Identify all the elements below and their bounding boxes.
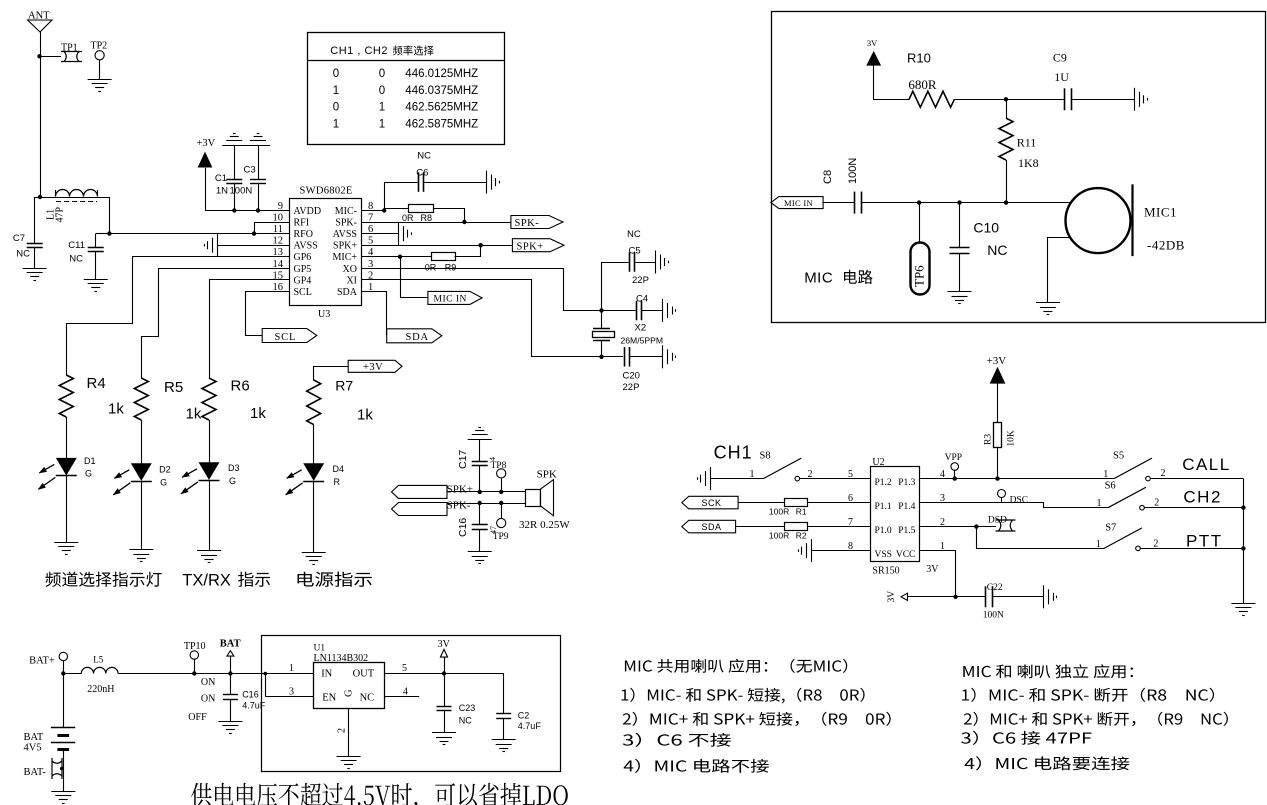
svg-text:C9: C9 — [1053, 51, 1067, 65]
svg-text:1k: 1k — [108, 401, 124, 418]
svg-text:L5: L5 — [93, 655, 103, 665]
svg-text:0R: 0R — [402, 213, 414, 223]
svg-text:26M/5PPM: 26M/5PPM — [621, 336, 664, 346]
svg-text:C6: C6 — [416, 168, 428, 179]
svg-text:TP6: TP6 — [912, 265, 927, 287]
svg-text:XI: XI — [346, 275, 357, 286]
svg-text:OFF: OFF — [188, 712, 207, 723]
svg-text:R7: R7 — [335, 377, 353, 393]
svg-text:C5: C5 — [629, 246, 641, 257]
svg-text:NC: NC — [417, 151, 431, 162]
svg-text:446.0375MHZ: 446.0375MHZ — [405, 85, 478, 97]
svg-text:C4: C4 — [636, 294, 648, 305]
svg-text:5: 5 — [848, 469, 853, 480]
svg-text:MIC+: MIC+ — [332, 252, 357, 263]
svg-text:220nH: 220nH — [87, 684, 114, 695]
svg-text:X2: X2 — [635, 323, 647, 334]
svg-text:DSD: DSD — [988, 516, 1007, 526]
svg-text:2: 2 — [1161, 468, 1166, 479]
svg-text:NC: NC — [459, 716, 472, 726]
svg-text:-42DB: -42DB — [1147, 238, 1185, 253]
svg-text:BAT-: BAT- — [24, 767, 47, 778]
svg-text:S8: S8 — [760, 450, 771, 461]
svg-text:C11: C11 — [68, 240, 85, 251]
svg-text:SDA: SDA — [337, 287, 358, 298]
svg-text:MIC: MIC — [804, 270, 833, 287]
svg-text:G: G — [85, 469, 92, 479]
svg-text:4: 4 — [488, 457, 497, 461]
svg-text:R: R — [334, 477, 341, 487]
svg-text:3V: 3V — [887, 591, 897, 603]
svg-text:4.7uF: 4.7uF — [242, 700, 266, 710]
svg-text:SCL: SCL — [294, 287, 312, 298]
svg-text:1: 1 — [379, 118, 385, 130]
svg-text:NC: NC — [627, 229, 641, 240]
svg-text:0: 0 — [333, 102, 339, 114]
svg-text:C2: C2 — [518, 711, 530, 721]
svg-text:U3: U3 — [318, 309, 330, 320]
svg-text:C16: C16 — [457, 518, 469, 537]
svg-text:R1: R1 — [796, 507, 807, 517]
svg-text:MIC IN: MIC IN — [434, 295, 467, 305]
svg-text:MIC-: MIC- — [335, 206, 357, 217]
svg-text:3V: 3V — [867, 38, 878, 48]
svg-text:R5: R5 — [164, 379, 183, 396]
svg-text:BAT: BAT — [24, 732, 44, 743]
svg-text:1k: 1k — [186, 406, 202, 423]
svg-text:C7: C7 — [13, 233, 25, 244]
svg-text:R10: R10 — [907, 51, 931, 66]
svg-text:C22: C22 — [987, 583, 1003, 593]
svg-text:+3V: +3V — [987, 355, 1007, 367]
svg-text:1: 1 — [289, 663, 294, 674]
svg-text:100N: 100N — [983, 610, 1004, 620]
svg-text:1: 1 — [1096, 539, 1101, 550]
svg-text:OUT: OUT — [353, 668, 375, 679]
svg-text:3V: 3V — [438, 639, 451, 650]
svg-text:R3: R3 — [984, 434, 994, 445]
svg-text:GP6: GP6 — [294, 252, 312, 263]
svg-text:R6: R6 — [231, 378, 250, 395]
svg-text:GP4: GP4 — [294, 275, 312, 286]
svg-text:RFO: RFO — [294, 229, 313, 240]
svg-text:SPK-: SPK- — [515, 218, 540, 229]
svg-text:AVSS: AVSS — [294, 241, 318, 252]
svg-text:G: G — [344, 689, 355, 697]
svg-text:SR150: SR150 — [872, 566, 899, 577]
svg-text:462.5625MHZ: 462.5625MHZ — [405, 102, 478, 114]
svg-text:SCL: SCL — [275, 332, 297, 343]
svg-text:R8: R8 — [421, 213, 433, 223]
svg-text:1: 1 — [750, 469, 755, 480]
svg-text:P1.1: P1.1 — [875, 502, 892, 512]
svg-text:3V: 3V — [926, 564, 939, 575]
svg-text:SPK-: SPK- — [447, 500, 471, 512]
svg-text:1: 1 — [1097, 498, 1102, 509]
svg-text:1U: 1U — [1054, 70, 1069, 84]
svg-text:C20: C20 — [623, 371, 640, 382]
svg-text:446.0125MHZ: 446.0125MHZ — [405, 68, 478, 80]
svg-text:C23: C23 — [459, 703, 476, 713]
svg-text:47: 47 — [489, 526, 498, 534]
svg-text:LN1134B302: LN1134B302 — [314, 653, 369, 664]
svg-text:+3V: +3V — [363, 362, 383, 373]
svg-text:AVDD: AVDD — [294, 206, 322, 217]
svg-text:VCC: VCC — [896, 550, 916, 560]
svg-text:TP8: TP8 — [491, 461, 507, 471]
svg-text:R9: R9 — [445, 262, 457, 272]
svg-text:CALL: CALL — [1182, 455, 1231, 474]
svg-text:C8: C8 — [822, 170, 834, 184]
svg-text:3: 3 — [289, 687, 294, 698]
svg-text:D1: D1 — [84, 456, 96, 466]
svg-text:TX/RX: TX/RX — [182, 572, 231, 590]
svg-text:BAT+: BAT+ — [29, 656, 55, 667]
svg-text:R2: R2 — [796, 531, 807, 541]
svg-text:IN: IN — [321, 668, 332, 679]
svg-text:680R: 680R — [908, 77, 937, 92]
svg-text:SCK: SCK — [702, 498, 722, 508]
svg-text:2: 2 — [1153, 539, 1158, 550]
svg-text:SDA: SDA — [702, 522, 722, 532]
svg-text:100N: 100N — [847, 158, 859, 184]
svg-text:P1.2: P1.2 — [875, 478, 892, 488]
svg-text:CH2: CH2 — [1183, 487, 1222, 506]
svg-text:VSS: VSS — [875, 550, 892, 560]
svg-text:CH1 , CH2: CH1 , CH2 — [330, 45, 388, 57]
svg-text:AVSS: AVSS — [333, 229, 357, 240]
svg-text:C10: C10 — [973, 220, 999, 236]
svg-text:2: 2 — [337, 728, 348, 733]
svg-text:P1.5: P1.5 — [898, 526, 915, 536]
svg-text:D2: D2 — [159, 465, 171, 475]
svg-text:CH1: CH1 — [714, 442, 753, 462]
svg-text:0: 0 — [379, 68, 385, 80]
svg-text:NC: NC — [360, 693, 375, 704]
svg-text:TP2: TP2 — [91, 41, 108, 52]
svg-text:P1.0: P1.0 — [875, 526, 892, 536]
svg-text:2: 2 — [1154, 498, 1159, 509]
svg-text:VPP: VPP — [945, 453, 962, 463]
svg-text:5: 5 — [402, 663, 407, 674]
svg-text:PTT: PTT — [1186, 532, 1223, 551]
svg-text:BAT: BAT — [220, 638, 241, 649]
svg-text:C17: C17 — [457, 450, 469, 469]
svg-text:0: 0 — [379, 85, 385, 97]
svg-text:EN: EN — [322, 693, 336, 704]
svg-text:SPK+: SPK+ — [447, 484, 473, 496]
svg-text:1N: 1N — [216, 186, 228, 197]
svg-text:1: 1 — [333, 85, 339, 97]
svg-text:U2: U2 — [872, 457, 884, 468]
svg-text:XO: XO — [343, 264, 357, 275]
svg-text:ON: ON — [201, 694, 215, 705]
svg-text:47P: 47P — [55, 207, 66, 223]
svg-text:1: 1 — [1103, 469, 1108, 480]
svg-text:ON: ON — [201, 677, 215, 688]
svg-text:SPK+: SPK+ — [517, 241, 544, 252]
svg-text:R4: R4 — [87, 375, 106, 392]
svg-text:4.7uF: 4.7uF — [518, 721, 542, 731]
svg-text:SDA: SDA — [406, 332, 429, 343]
svg-text:SPK-: SPK- — [335, 218, 357, 229]
svg-text:NC: NC — [987, 242, 1007, 258]
svg-text:7: 7 — [368, 213, 373, 224]
svg-text:G: G — [160, 478, 167, 488]
svg-text:10K: 10K — [1007, 430, 1017, 447]
svg-text:2: 2 — [808, 469, 813, 480]
svg-text:32R 0.25W: 32R 0.25W — [519, 519, 570, 531]
svg-text:P1.4: P1.4 — [898, 502, 915, 512]
svg-text:S6: S6 — [1105, 481, 1116, 492]
svg-text:C16: C16 — [242, 689, 259, 699]
svg-text:D3: D3 — [228, 463, 240, 473]
svg-text:MIC1: MIC1 — [1144, 205, 1177, 220]
svg-text:+3V: +3V — [197, 138, 216, 149]
svg-text:C3: C3 — [244, 165, 256, 176]
svg-text:SPK+: SPK+ — [333, 241, 357, 252]
svg-text:DSC: DSC — [1010, 495, 1028, 505]
svg-text:S7: S7 — [1105, 522, 1116, 533]
svg-text:0: 0 — [333, 68, 339, 80]
svg-text:SPK: SPK — [537, 468, 557, 480]
svg-text:0R: 0R — [425, 262, 437, 272]
svg-text:D4: D4 — [333, 464, 345, 474]
svg-text:TP10: TP10 — [184, 641, 206, 652]
svg-text:4V5: 4V5 — [24, 743, 42, 754]
svg-text:P1.3: P1.3 — [898, 478, 915, 488]
svg-text:4: 4 — [403, 687, 408, 698]
svg-text:1: 1 — [333, 118, 339, 130]
svg-text:NC: NC — [69, 254, 83, 265]
svg-text:1k: 1k — [357, 407, 373, 424]
svg-text:G: G — [229, 476, 236, 486]
svg-text:100R: 100R — [769, 531, 789, 541]
svg-text:S5: S5 — [1113, 450, 1124, 461]
svg-text:100R: 100R — [769, 507, 789, 517]
svg-text:MIC IN: MIC IN — [784, 198, 813, 208]
svg-text:C1: C1 — [215, 173, 227, 184]
svg-text:SWD6802E: SWD6802E — [300, 186, 353, 197]
svg-text:NC: NC — [16, 249, 30, 260]
svg-text:1: 1 — [379, 102, 385, 114]
svg-text:22P: 22P — [632, 275, 649, 286]
svg-text:1K8: 1K8 — [1018, 156, 1039, 170]
svg-text:1k: 1k — [250, 405, 266, 422]
svg-text:GP5: GP5 — [294, 264, 312, 275]
svg-text:R11: R11 — [1017, 135, 1037, 149]
svg-text:RFI: RFI — [294, 218, 310, 229]
svg-text:22P: 22P — [623, 382, 640, 393]
svg-text:10: 10 — [273, 213, 284, 224]
svg-text:100N: 100N — [230, 186, 253, 197]
svg-text:462.5875MHZ: 462.5875MHZ — [405, 118, 478, 130]
